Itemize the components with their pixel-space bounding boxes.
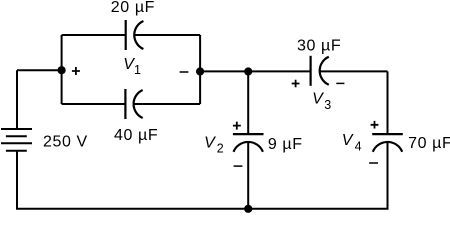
svg-text:V: V [312, 91, 324, 108]
svg-text:3: 3 [324, 98, 331, 112]
svg-text:250 V: 250 V [43, 134, 88, 151]
svg-text:V: V [204, 134, 216, 151]
svg-text:40 µF: 40 µF [114, 127, 158, 144]
svg-text:2: 2 [217, 141, 224, 155]
svg-text:1: 1 [134, 63, 141, 77]
svg-text:4: 4 [355, 139, 362, 153]
svg-text:9 µF: 9 µF [268, 136, 303, 153]
svg-text:V: V [342, 132, 354, 149]
svg-text:30 µF: 30 µF [297, 37, 341, 54]
svg-text:70 µF: 70 µF [408, 135, 450, 152]
svg-text:20 µF: 20 µF [111, 0, 155, 16]
